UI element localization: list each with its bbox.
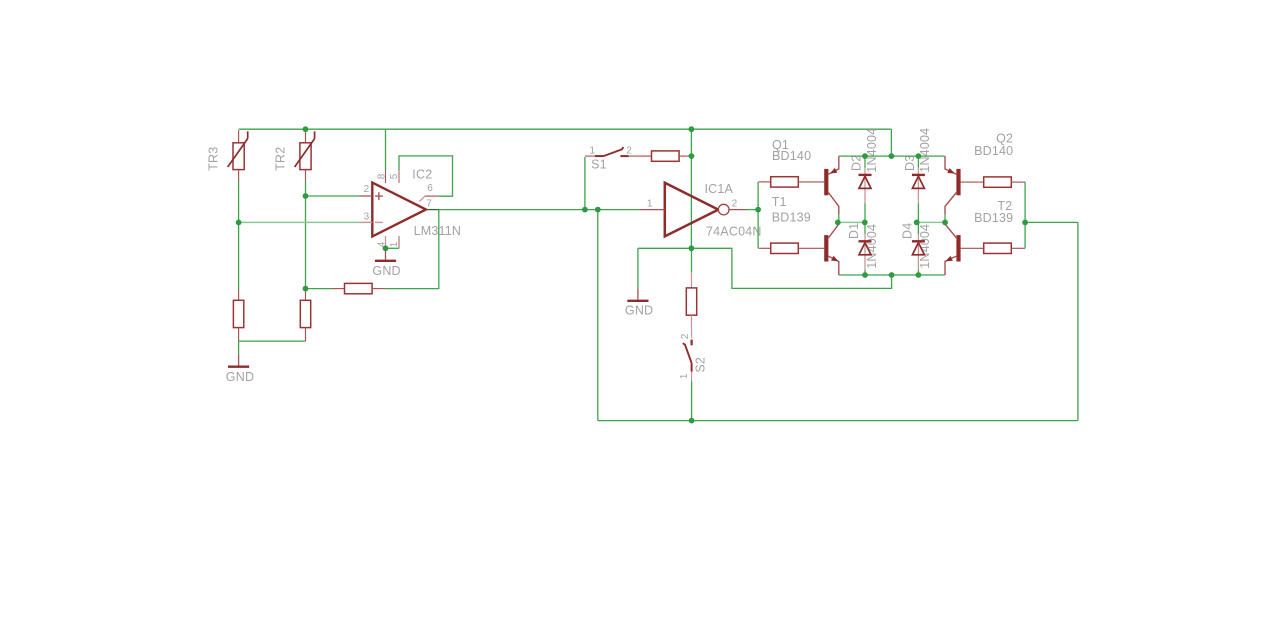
wire emitter net left of GND xyxy=(638,247,692,249)
svg-text:74AC04N: 74AC04N xyxy=(706,225,762,239)
wire top supply rail xyxy=(239,128,892,130)
svg-text:BD139: BD139 xyxy=(974,211,1013,225)
resistor R3 feedback xyxy=(333,288,345,290)
ground GND lower-left xyxy=(238,354,240,366)
wire node A to op-amp pin2 xyxy=(306,195,360,197)
wire op-amp pin4-pin1 join xyxy=(386,247,400,249)
resistor R6 base of Q1 xyxy=(759,181,771,183)
diode D1 1N4004 xyxy=(864,222,866,234)
svg-text:1: 1 xyxy=(647,199,653,210)
svg-text:T1: T1 xyxy=(772,195,787,209)
ground GND middle xyxy=(637,248,639,288)
svg-text:IC2: IC2 xyxy=(412,168,432,182)
resistor R4 after S1 xyxy=(639,155,652,157)
switch S2 xyxy=(691,328,693,338)
wire R1-R2 bottom link xyxy=(239,340,306,342)
wire node pin3 down to R1 xyxy=(238,222,240,289)
wire right riser to base junction xyxy=(1025,221,1078,223)
svg-text:1: 1 xyxy=(679,373,690,379)
svg-text:GND: GND xyxy=(226,370,254,384)
wire S2 pin1 to bottom run xyxy=(691,381,693,421)
wire emitter net to bridge return xyxy=(691,248,891,288)
svg-text:8: 8 xyxy=(376,173,387,179)
wire feedback node to R3 xyxy=(306,288,333,290)
diode D4 1N4004 xyxy=(917,222,919,234)
svg-text:TR2: TR2 xyxy=(274,147,288,171)
svg-text:6: 6 xyxy=(427,183,433,194)
wire output net to inverter input xyxy=(439,209,640,211)
wire bridge mid rail right xyxy=(917,221,945,223)
wire op-amp output pin7 overlap xyxy=(426,209,439,211)
svg-text:LM311N: LM311N xyxy=(414,224,462,238)
svg-text:1N4004: 1N4004 xyxy=(865,128,879,173)
inverter IC1A 74AC04N xyxy=(665,183,719,237)
transistor Q1 BD140 xyxy=(824,169,828,195)
wire R3 to output column xyxy=(386,210,439,289)
svg-text:2: 2 xyxy=(364,184,370,195)
wire op-amp pin5 to pin6 loop xyxy=(399,156,453,196)
svg-text:BD140: BD140 xyxy=(974,144,1013,158)
wire top rail drop to bridge xyxy=(890,129,892,156)
svg-text:BD139: BD139 xyxy=(772,210,811,224)
wire op-amp pin8 to top rail xyxy=(385,129,387,169)
resistor R2 xyxy=(305,289,307,300)
svg-text:D4: D4 xyxy=(900,223,914,239)
svg-text:D3: D3 xyxy=(903,155,917,171)
svg-text:S1: S1 xyxy=(591,157,607,171)
wire bridge top rail xyxy=(839,155,945,157)
wire node B to op-amp pin3 xyxy=(239,221,360,223)
wire Q2-T2 base join xyxy=(1024,182,1026,248)
svg-text:2: 2 xyxy=(626,146,632,157)
svg-text:7: 7 xyxy=(426,198,432,209)
svg-text:IC1A: IC1A xyxy=(705,182,734,196)
svg-text:TR3: TR3 xyxy=(207,147,221,171)
transistor T2 BD139 xyxy=(956,235,960,261)
svg-text:S2: S2 xyxy=(694,357,708,373)
svg-text:1: 1 xyxy=(389,241,400,247)
svg-text:D1: D1 xyxy=(847,223,861,239)
diode D2 1N4004 xyxy=(864,156,866,167)
svg-text:3: 3 xyxy=(364,212,370,223)
wire junction column vertical through inverter xyxy=(690,129,692,248)
transistor Q2 BD140 xyxy=(956,169,960,195)
wire R4 to junction column xyxy=(688,155,692,157)
svg-text:GND: GND xyxy=(625,303,653,317)
wire bottom long run xyxy=(598,420,1078,422)
svg-text:1: 1 xyxy=(590,146,596,157)
svg-text:2: 2 xyxy=(732,199,738,210)
ground GND op-amp xyxy=(385,248,387,259)
svg-text:GND: GND xyxy=(372,264,400,278)
wire S1 pin1 down to output net xyxy=(584,157,586,210)
svg-text:BD140: BD140 xyxy=(772,149,811,163)
wire TR3 to node pin3 xyxy=(238,182,240,223)
svg-text:5: 5 xyxy=(389,173,400,179)
wire base node vertical xyxy=(757,182,759,248)
switch S1 xyxy=(585,155,595,157)
resistor R9 base of T2 xyxy=(961,247,984,249)
wire R1 bottom to GND xyxy=(238,341,240,354)
svg-text:1N4004: 1N4004 xyxy=(918,128,932,173)
wire output net drop at 597.8 xyxy=(597,210,599,421)
resistor R7 base of T1 xyxy=(759,247,771,249)
resistor R5 vertical xyxy=(691,248,693,272)
resistor R1 xyxy=(238,289,240,300)
diode D3 1N4004 xyxy=(917,156,919,167)
thermistor TR2 xyxy=(305,130,307,143)
svg-text:2: 2 xyxy=(680,333,691,339)
junction dots xyxy=(303,126,309,132)
wire bridge bottom rail xyxy=(839,274,945,276)
wire inverter output to base node xyxy=(746,209,758,211)
transistor T1 BD139 xyxy=(824,235,828,261)
op-amp IC2 LM311N xyxy=(372,183,426,237)
svg-text:D2: D2 xyxy=(849,155,863,171)
wire bridge mid rail left xyxy=(838,221,865,223)
thermistor TR3 xyxy=(238,130,240,143)
wire TR2 to feedback node xyxy=(305,182,307,289)
wire right riser xyxy=(1077,222,1079,420)
resistor R8 base of Q2 xyxy=(961,181,984,183)
